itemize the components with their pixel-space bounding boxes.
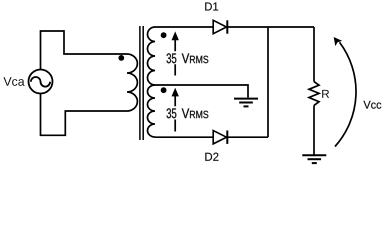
label RMS upper [190,56,208,64]
label R [322,90,329,98]
label D2 [205,153,218,161]
label 35 lower [167,108,177,118]
diode D2 [213,131,227,144]
label Vcc [363,101,381,109]
ground (center tap) [234,99,258,107]
transformer core [140,26,143,140]
wire: secondary bottom to D2 output corner [155,136,268,138]
transformer primary winding [127,54,137,111]
primary polarity dot [118,55,124,61]
label 35 upper [167,53,177,63]
secondary polarity dot upper [161,32,167,38]
label Vca [3,77,24,86]
wire: resistor to ground [313,105,315,154]
resistor R [309,82,319,106]
label RMS lower [190,111,208,119]
label V upper [182,53,190,63]
AC source Vca [29,70,53,94]
wire: source top to primary top (stepped) [41,31,128,70]
wire: center tap to ground [155,85,248,98]
voltage arrow upper (35 VRMS) [172,31,179,75]
ground (right) [302,155,326,163]
secondary polarity dot lower [161,87,167,93]
diode D1 [213,20,227,33]
label V lower [182,108,190,118]
voltage arrow lower (35 VRMS) [172,88,179,132]
wire: secondary top to D1 and to right rail [155,26,314,28]
transformer secondary winding lower half [148,85,155,137]
transformer secondary winding upper half [148,27,155,85]
wire: D2 output up to top node [267,27,269,137]
wire: right rail down to resistor [313,27,315,82]
Vcc arrow (curved) [334,37,356,147]
wire: source bottom to primary bottom (stepped) [41,94,128,136]
label D1 [205,2,218,10]
